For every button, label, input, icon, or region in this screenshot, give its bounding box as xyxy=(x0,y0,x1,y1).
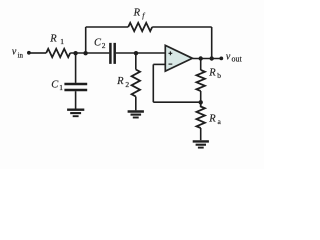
wire: op-amp output xyxy=(193,58,221,60)
svg-text:f: f xyxy=(142,11,145,20)
capacitor C1 xyxy=(64,84,87,90)
node B (junction C2/R2/op-amp +) xyxy=(134,51,138,55)
wire: top feedback right run xyxy=(152,26,212,28)
wire: inverting input stub xyxy=(153,63,165,65)
resistor R1 xyxy=(46,49,70,57)
wire: Ra to ground xyxy=(200,128,202,140)
svg-text:v: v xyxy=(12,47,17,58)
node A (junction R1/C1/C2) xyxy=(73,51,77,55)
op-amp minus sign xyxy=(169,63,173,65)
svg-text:C: C xyxy=(51,79,59,90)
wire: feedback riser from node F xyxy=(85,27,87,53)
wire: terminal to R1 xyxy=(31,52,47,54)
svg-text:2: 2 xyxy=(125,80,129,89)
op-amp plus sign xyxy=(169,51,173,55)
svg-text:v: v xyxy=(226,52,231,63)
svg-text:R: R xyxy=(133,8,141,19)
wire: feedback drop to output xyxy=(211,27,213,59)
wire: R2 to ground xyxy=(135,97,137,111)
label Ra xyxy=(208,113,221,125)
svg-text:1: 1 xyxy=(59,83,63,92)
svg-text:R: R xyxy=(49,33,57,44)
label v_in xyxy=(12,47,24,60)
node C (output / Rb) xyxy=(199,56,203,60)
wire: node C down to Rb xyxy=(200,59,202,71)
op-amp U1 xyxy=(165,45,192,71)
wire: node A down to C1 xyxy=(75,53,77,83)
wire: C2 to op-amp xyxy=(116,52,165,54)
svg-text:a: a xyxy=(218,117,222,126)
node D (output / Rf feedback) xyxy=(210,56,214,60)
label R1 xyxy=(49,33,64,46)
ground (C1) xyxy=(67,110,84,117)
input terminal v_in xyxy=(27,51,31,55)
svg-text:1: 1 xyxy=(60,37,64,46)
svg-text:in: in xyxy=(18,52,24,60)
label C2 xyxy=(94,38,106,51)
node E (Rb/Ra/feedback junction) xyxy=(199,100,203,104)
svg-text:out: out xyxy=(232,55,243,64)
wire: node B down to R2 xyxy=(135,53,137,70)
label v_out xyxy=(226,52,243,64)
node F (feedback tap) xyxy=(83,51,87,55)
ground (R2) xyxy=(128,112,144,118)
resistor Rf xyxy=(128,23,152,31)
resistor R2 xyxy=(132,70,140,97)
resistor Rb xyxy=(197,70,205,91)
ground (Ra) xyxy=(193,141,209,147)
wire: top feedback left run xyxy=(86,26,129,28)
wire: C1 to ground xyxy=(75,91,77,108)
resistor Ra xyxy=(197,102,205,128)
wire: feedback down left side xyxy=(152,64,154,102)
wire: R1 to C2 xyxy=(70,52,109,54)
svg-text:R: R xyxy=(116,76,124,87)
label Rf xyxy=(133,8,146,20)
svg-text:2: 2 xyxy=(102,41,106,50)
wire: feedback bottom run to node E xyxy=(153,101,200,103)
svg-text:R: R xyxy=(208,113,216,124)
output terminal v_out xyxy=(219,57,223,61)
wire: Rb to node E xyxy=(200,91,202,102)
label Rb xyxy=(208,67,221,79)
svg-text:b: b xyxy=(217,71,221,80)
label R2 xyxy=(116,76,129,89)
label C1 xyxy=(51,79,63,92)
capacitor C2 xyxy=(110,43,114,64)
svg-text:R: R xyxy=(208,67,216,78)
